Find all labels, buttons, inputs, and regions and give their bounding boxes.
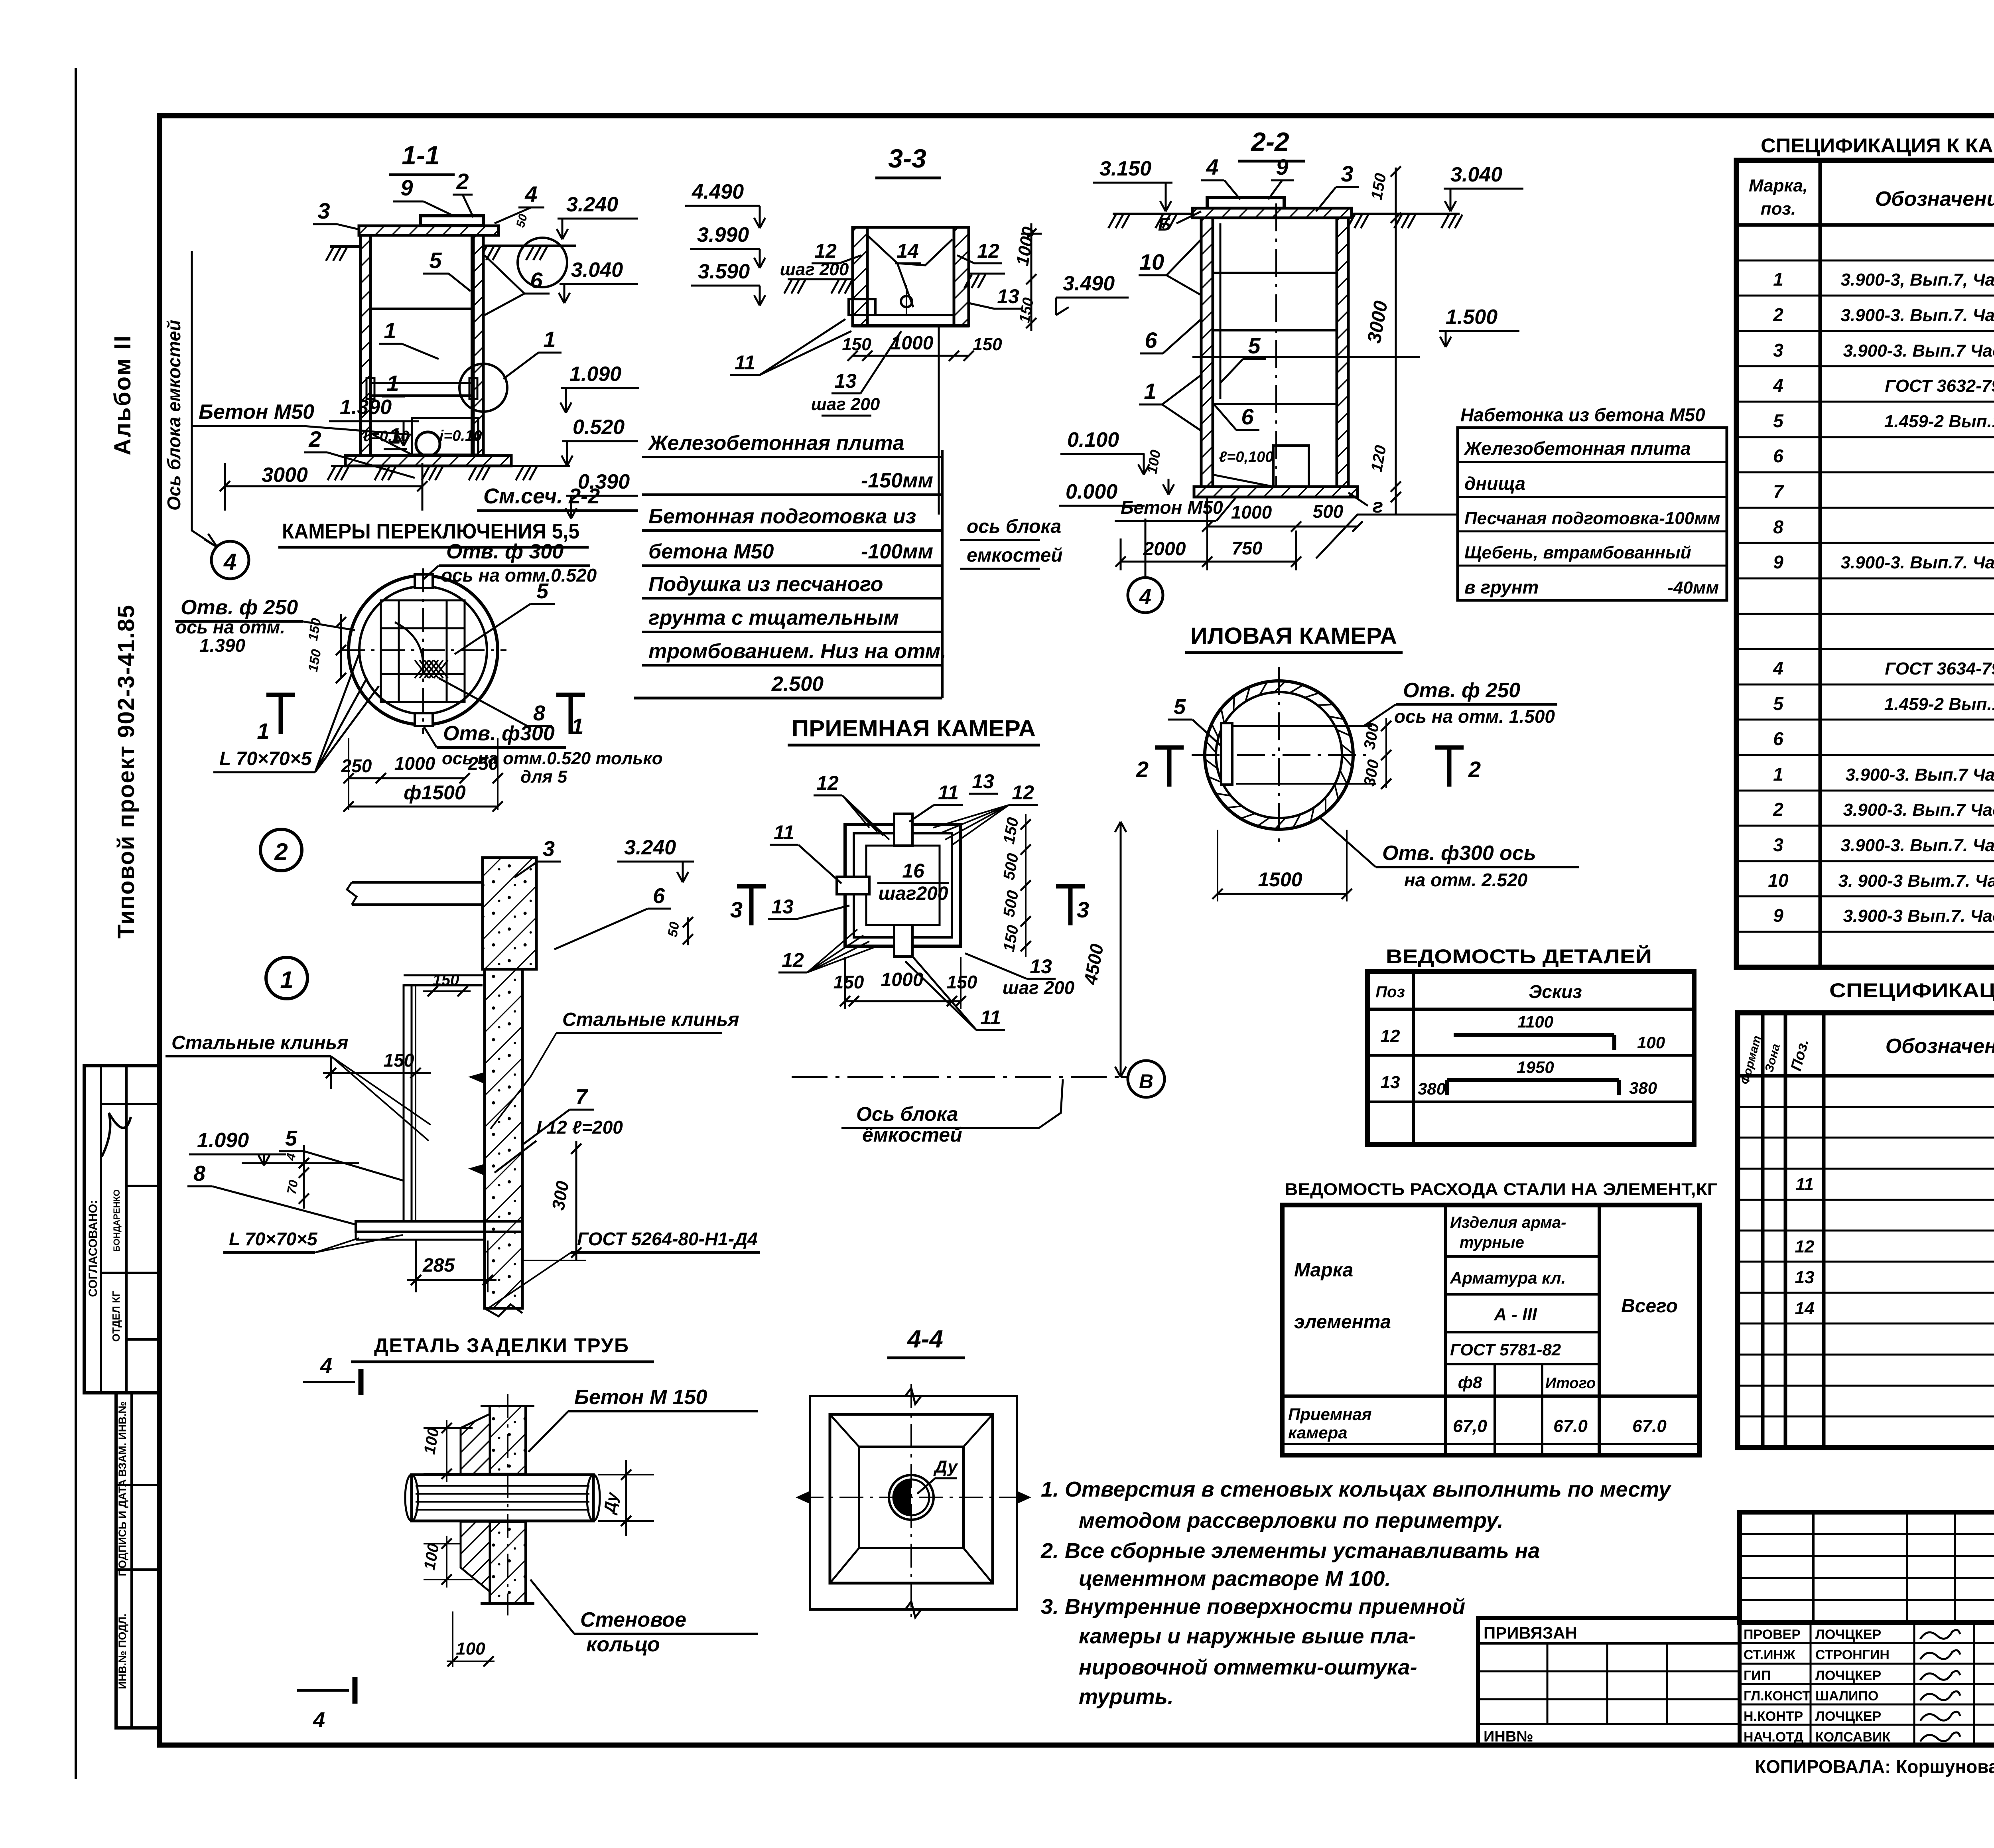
svg-text:3.490: 3.490 (1063, 272, 1115, 295)
svg-text:12: 12 (782, 949, 804, 971)
axis circle 4 sec22 (1128, 578, 1163, 613)
svg-text:3-3: 3-3 (888, 144, 926, 173)
svg-text:ЛОЧЦКЕР: ЛОЧЦКЕР (1815, 1668, 1881, 1683)
svg-text:4.490: 4.490 (692, 180, 744, 203)
svg-text:2: 2 (456, 169, 469, 194)
svg-text:500: 500 (1313, 501, 1344, 522)
section 3-3 ground hatch right (969, 273, 1005, 275)
svg-text:ШАЛИПО: ШАЛИПО (1815, 1688, 1878, 1704)
svg-text:8: 8 (533, 701, 545, 725)
svg-text:13: 13 (1795, 1268, 1815, 1287)
svg-text:3.900-3 Вып.7. Часть 1: 3.900-3 Вып.7. Часть 1 (1843, 906, 1994, 926)
detail 1 wall hatched (485, 969, 522, 1308)
svg-text:4: 4 (1206, 154, 1218, 179)
svg-text:L 70×70×5: L 70×70×5 (219, 748, 312, 769)
svg-text:Песчаная подготовка-100мм: Песчаная подготовка-100мм (1464, 509, 1720, 528)
svg-text:5: 5 (1174, 695, 1186, 719)
left stamp box soglasovano (84, 1066, 160, 1393)
svg-text:Типовой проект 902-3-41.85: Типовой проект 902-3-41.85 (113, 604, 139, 939)
section 1-1 ground line left (330, 245, 361, 248)
detail 1 inner angle vertical (404, 985, 412, 1221)
svg-text:6: 6 (1145, 327, 1157, 353)
svg-text:10: 10 (1768, 870, 1789, 891)
svg-text:3: 3 (1077, 897, 1089, 922)
svg-text:3.240: 3.240 (566, 193, 618, 216)
svg-text:1: 1 (280, 966, 293, 993)
svg-text:1: 1 (1773, 764, 1783, 785)
svg-text:9: 9 (1773, 905, 1783, 926)
svg-text:11: 11 (774, 821, 794, 844)
svg-text:1500: 1500 (1258, 868, 1302, 891)
svg-text:750: 750 (1232, 538, 1263, 558)
svg-text:3.240: 3.240 (624, 836, 676, 859)
svg-text:Арматура кл.: Арматура кл. (1450, 1268, 1566, 1287)
svg-text:3.900-3. Вып.7 Часть 1: 3.900-3. Вып.7 Часть 1 (1843, 800, 1994, 820)
svg-text:7: 7 (1773, 481, 1784, 502)
svg-text:ПРИЕМНАЯ КАМЕРА: ПРИЕМНАЯ КАМЕРА (792, 716, 1036, 742)
svg-text:СОГЛАСОВАНО:: СОГЛАСОВАНО: (87, 1200, 100, 1297)
zadelki wedge upper (461, 1414, 490, 1474)
svg-text:Бетонная подготовка из: Бетонная подготовка из (648, 505, 916, 528)
svg-text:2: 2 (1773, 304, 1783, 325)
svg-text:1: 1 (543, 327, 556, 352)
svg-text:7: 7 (575, 1085, 589, 1109)
section 2-2 lid (1207, 197, 1284, 208)
svg-text:6: 6 (1773, 728, 1783, 749)
svg-text:10: 10 (1139, 249, 1164, 274)
svg-text:13: 13 (834, 370, 857, 392)
detail 4-4 axes (910, 1384, 912, 1621)
detail 4-4 inner square (859, 1447, 964, 1548)
plan ilovaya axes (1278, 667, 1280, 846)
svg-text:Щебень, втрамбованный: Щебень, втрамбованный (1464, 543, 1691, 562)
svg-text:2: 2 (1773, 799, 1783, 820)
spec1 table grid (1736, 160, 1994, 967)
svg-text:6: 6 (1241, 404, 1254, 429)
svg-text:элемента: элемента (1294, 1312, 1391, 1333)
section 1-1 ground line right (483, 245, 576, 247)
svg-text:Отв. ф 300: Отв. ф 300 (446, 540, 564, 563)
svg-text:шаг 200: шаг 200 (1003, 977, 1075, 998)
svg-text:ВЕДОМОСТЬ РАСХОДА СТАЛИ НА ЭЛЕ: ВЕДОМОСТЬ РАСХОДА СТАЛИ НА ЭЛЕМЕНТ,КГ (1285, 1180, 1718, 1199)
title block TP revision grid (1812, 1512, 1815, 1623)
section 3-3 ground hatch left (788, 278, 853, 280)
svg-text:ГОСТ 3634-79: ГОСТ 3634-79 (1885, 659, 1994, 678)
svg-text:2: 2 (1136, 757, 1149, 782)
section 1-1 axis leader to circle 4 (192, 507, 217, 547)
svg-text:380: 380 (1629, 1079, 1657, 1097)
svg-text:ИНВ.№ ПОДЛ.: ИНВ.№ ПОДЛ. (116, 1613, 128, 1689)
svg-text:1000: 1000 (1231, 502, 1272, 523)
svg-text:67.0: 67.0 (1553, 1416, 1588, 1436)
svg-text:12: 12 (816, 772, 839, 794)
svg-text:3. 900-3 Выт.7. Часть 1: 3. 900-3 Выт.7. Часть 1 (1838, 871, 1994, 891)
section 3-3 box walls (853, 227, 867, 326)
section mark 1 left (266, 693, 295, 697)
svg-text:2-2: 2-2 (1250, 127, 1289, 156)
svg-text:9: 9 (1773, 552, 1783, 572)
svg-text:2: 2 (274, 838, 288, 865)
svg-text:СТРОНГИН: СТРОНГИН (1815, 1647, 1890, 1663)
svg-text:12: 12 (1795, 1237, 1815, 1256)
svg-text:11: 11 (1795, 1175, 1814, 1194)
svg-text:3.040: 3.040 (1450, 163, 1502, 186)
detail 2 floor slab (352, 881, 483, 884)
svg-text:Отв. ф 250: Отв. ф 250 (1403, 679, 1520, 702)
svg-text:1.459-2 Вып.1: 1.459-2 Вып.1 (1884, 694, 1994, 714)
svg-text:СПЕЦИФИКАЦИЯ К ПРИЕМНОЙ КАМЕ: СПЕЦИФИКАЦИЯ К ПРИЕМНОЙ КАМЕРЕ (1829, 979, 1994, 1002)
svg-text:8: 8 (193, 1162, 205, 1185)
left stamp box inv (116, 1393, 160, 1728)
svg-text:А - III: А - III (1494, 1305, 1537, 1324)
svg-text:0.520: 0.520 (573, 416, 625, 439)
svg-text:150: 150 (833, 972, 864, 992)
section 2-2 ladder line (1220, 223, 1222, 399)
detail circle 1 (266, 957, 307, 999)
plan priyemnaya outer square (845, 824, 961, 946)
svg-text:Альбом II: Альбом II (110, 334, 136, 455)
svg-text:6: 6 (530, 268, 543, 293)
spec2 table grid (1738, 1013, 1994, 1448)
svg-text:Н.КОНТР: Н.КОНТР (1744, 1709, 1803, 1724)
detail 2 concrete block (483, 858, 536, 969)
svg-text:1: 1 (1144, 379, 1156, 404)
svg-text:ПРИВЯЗАН: ПРИВЯЗАН (1484, 1623, 1577, 1642)
svg-text:1.090: 1.090 (197, 1129, 249, 1152)
svg-text:I 12 ℓ=200: I 12 ℓ=200 (536, 1117, 623, 1138)
svg-text:кольцо: кольцо (586, 1633, 660, 1656)
plan kamery outer ring (349, 576, 498, 725)
svg-text:1: 1 (257, 718, 269, 744)
svg-text:1100: 1100 (1517, 1012, 1553, 1031)
svg-text:3.590: 3.590 (698, 260, 750, 283)
svg-text:ℓ=0,100: ℓ=0,100 (1219, 449, 1274, 465)
svg-text:камеры и наружные выше пла-: камеры и наружные выше пла- (1079, 1624, 1416, 1648)
svg-text:100: 100 (1637, 1033, 1665, 1052)
svg-text:3000: 3000 (262, 463, 308, 487)
nabetonka leader (1316, 515, 1458, 558)
svg-text:5: 5 (1773, 693, 1784, 714)
note list right border (941, 450, 944, 698)
svg-text:ПОДПИСЬ И ДАТА: ПОДПИСЬ И ДАТА (116, 1479, 128, 1576)
svg-text:шаг200: шаг200 (878, 883, 948, 904)
svg-text:Стальные клинья: Стальные клинья (171, 1032, 348, 1053)
svg-text:БОНДАРЕНКО: БОНДАРЕНКО (112, 1189, 122, 1252)
section 1-1 bottom slab (345, 456, 511, 466)
plan ilovaya outer ring (1205, 681, 1353, 829)
svg-text:4: 4 (313, 1708, 325, 1732)
svg-text:100: 100 (456, 1639, 485, 1659)
svg-text:Изделия арма-: Изделия арма- (1450, 1214, 1566, 1231)
svg-text:КОЛСАВИК: КОЛСАВИК (1815, 1730, 1890, 1745)
plan kamery curved pipe line (395, 622, 423, 674)
svg-text:250: 250 (468, 753, 499, 774)
svg-text:11: 11 (735, 351, 755, 374)
svg-text:ф8: ф8 (1458, 1373, 1482, 1392)
svg-text:70: 70 (284, 1179, 301, 1195)
svg-text:1. Отверстия в стеновых кольца: 1. Отверстия в стеновых кольцах выполнит… (1041, 1477, 1672, 1501)
svg-text:ОТДЕЛ КГ: ОТДЕЛ КГ (110, 1291, 122, 1342)
svg-text:3: 3 (317, 198, 330, 223)
svg-text:ВЕДОМОСТЬ ДЕТАЛЕЙ: ВЕДОМОСТЬ ДЕТАЛЕЙ (1386, 945, 1652, 968)
svg-text:5: 5 (1248, 333, 1261, 358)
svg-text:3.900-3. Вып.7. Часть 1: 3.900-3. Вып.7. Часть 1 (1840, 836, 1994, 855)
axis circle 4 (211, 541, 249, 579)
svg-text:Ось блока: Ось блока (856, 1103, 958, 1125)
detail 1 wedges (471, 1073, 485, 1083)
svg-text:1950: 1950 (1517, 1058, 1554, 1077)
svg-text:камера: камера (1288, 1423, 1348, 1442)
detail 4-4 mid square (830, 1414, 993, 1583)
svg-text:Итого: Итого (1545, 1375, 1596, 1392)
svg-text:3. Внутренние поверхности прие: 3. Внутренние поверхности приемной (1041, 1595, 1465, 1619)
svg-text:3.900-3. Вып.7. Часть 1: 3.900-3. Вып.7. Часть 1 (1840, 553, 1994, 572)
svg-text:3: 3 (1341, 161, 1353, 186)
svg-text:6: 6 (653, 884, 665, 908)
detail 4-4 corner bevels (830, 1414, 859, 1447)
svg-text:КАМЕРЫ ПЕРЕКЛЮЧЕНИЯ 5,5: КАМЕРЫ ПЕРЕКЛЮЧЕНИЯ 5,5 (282, 519, 579, 543)
section 2-2 top slab (1192, 208, 1352, 218)
svg-text:9: 9 (400, 175, 413, 200)
svg-text:турные: турные (1460, 1234, 1524, 1251)
svg-text:ось на отм.: ось на отм. (175, 617, 285, 637)
svg-text:Ось блока емкостей: Ось блока емкостей (164, 320, 184, 511)
svg-text:4: 4 (1139, 585, 1151, 609)
svg-text:днища: днища (1464, 473, 1525, 494)
svg-text:1: 1 (386, 371, 399, 396)
svg-text:1.459-2 Вып.1: 1.459-2 Вып.1 (1884, 412, 1994, 431)
svg-text:12: 12 (1012, 781, 1034, 804)
left stamp signature (102, 1113, 131, 1157)
svg-text:ось на отм.0.520: ось на отм.0.520 (441, 565, 597, 586)
svg-text:ГОСТ 3632-79: ГОСТ 3632-79 (1885, 376, 1994, 396)
svg-text:Подушка из песчаного: Подушка из песчаного (648, 573, 883, 596)
title block privyazan box (1478, 1618, 1740, 1745)
svg-text:КОПИРОВАЛА: Коршунова: КОПИРОВАЛА: Коршунова (1755, 1756, 1994, 1777)
svg-text:1: 1 (384, 318, 396, 343)
svg-text:13: 13 (771, 895, 794, 918)
svg-text:ВЗАМ. ИНВ.№: ВЗАМ. ИНВ.№ (116, 1401, 128, 1477)
section mark 2 left ilovaya (1155, 746, 1184, 750)
plan ilovaya ladder stub (1221, 723, 1232, 785)
section mark 3 left (737, 884, 766, 889)
svg-text:13: 13 (997, 285, 1019, 308)
svg-text:грунта с тщательным: грунта с тщательным (648, 606, 899, 629)
section 2-2 ground left (1113, 213, 1192, 215)
svg-text:1-1: 1-1 (402, 140, 439, 170)
svg-text:шаг 200: шаг 200 (780, 260, 849, 279)
section 2-2 sump (1273, 446, 1309, 487)
svg-text:-40мм: -40мм (1667, 578, 1719, 598)
svg-text:бетона М50: бетона М50 (648, 540, 774, 563)
svg-text:285: 285 (422, 1255, 455, 1276)
svg-text:12: 12 (977, 240, 999, 262)
svg-text:2: 2 (1468, 757, 1481, 782)
detail 1 top plate (404, 984, 483, 986)
svg-text:Поз: Поз (1375, 983, 1405, 1001)
section 2-2 ring joints (1213, 272, 1337, 274)
section 1-1 top slab (359, 226, 498, 235)
svg-text:150: 150 (384, 1050, 414, 1071)
plan kamery inner ring (359, 586, 487, 714)
svg-text:Б: Б (1158, 214, 1171, 235)
svg-text:2.500: 2.500 (771, 673, 824, 696)
svg-text:3.900-3, Вып.7, Часть 1: 3.900-3, Вып.7, Часть 1 (1840, 270, 1994, 290)
svg-text:1: 1 (571, 714, 583, 739)
svg-text:Железобетонная плита: Железобетонная плита (1464, 438, 1691, 459)
svg-text:турить.: турить. (1079, 1685, 1174, 1709)
svg-text:4: 4 (223, 549, 236, 575)
section mark 4 top (303, 1381, 355, 1383)
vedomost detaley grid (1367, 972, 1694, 1144)
svg-text:8: 8 (1773, 517, 1783, 537)
section 1-1 detail circle lower (459, 364, 507, 412)
svg-text:Отв. ф300: Отв. ф300 (443, 722, 555, 745)
svg-text:3.900-3. Вып.7. Часть 1: 3.900-3. Вып.7. Часть 1 (1840, 306, 1994, 325)
svg-text:ось на отм. 1.500: ось на отм. 1.500 (1394, 706, 1555, 727)
svg-text:Марка,: Марка, (1749, 176, 1808, 195)
section 3-3 axis line down (938, 326, 940, 515)
plan priyemnaya stub top (894, 814, 912, 846)
section 3-3 left stub (849, 299, 875, 315)
svg-text:2000: 2000 (1143, 538, 1186, 560)
svg-text:ёмкостей: ёмкостей (862, 1124, 962, 1146)
svg-text:тромбованием. Низ на отм.: тромбованием. Низ на отм. (648, 640, 946, 663)
detail 1 wall break bottom (485, 1304, 522, 1316)
svg-text:ДЕТАЛЬ ЗАДЕЛКИ ТРУБ: ДЕТАЛЬ ЗАДЕЛКИ ТРУБ (374, 1334, 629, 1357)
zadelki wall upper (490, 1406, 526, 1474)
svg-text:нировочной отметки-оштука-: нировочной отметки-оштука- (1079, 1655, 1417, 1679)
svg-text:ЛОЧЦКЕР: ЛОЧЦКЕР (1815, 1627, 1881, 1642)
svg-text:емкостей: емкостей (967, 545, 1063, 566)
plan ilovaya ring hatch (1342, 755, 1352, 767)
section 1-1 sump (412, 418, 478, 455)
svg-text:4: 4 (320, 1354, 332, 1378)
svg-text:3: 3 (1773, 834, 1783, 855)
section mark 1 right (556, 693, 585, 697)
svg-text:Отв. ф300 ось: Отв. ф300 ось (1382, 842, 1536, 865)
detail 4-4 opening circle (889, 1475, 934, 1520)
section 2-2 ground right (1352, 213, 1460, 215)
plan ilovaya inner ring (1216, 692, 1342, 818)
detail 1 base plate (356, 1221, 522, 1232)
svg-text:Бетон М50: Бетон М50 (199, 400, 314, 424)
svg-text:67,0: 67,0 (1453, 1416, 1487, 1436)
svg-text:250: 250 (341, 755, 372, 776)
svg-text:См.сеч. 2-2: См.сеч. 2-2 (483, 484, 600, 508)
svg-text:шаг 200: шаг 200 (811, 394, 880, 414)
svg-text:ПРОВЕР: ПРОВЕР (1744, 1627, 1801, 1642)
svg-text:3.150: 3.150 (1099, 157, 1151, 180)
plan priyemnaya mid square (854, 833, 952, 937)
section 1-1 pipe level lines (370, 382, 473, 384)
section 1-1 sump pipe circle (416, 432, 440, 456)
svg-text:ИНВ№: ИНВ№ (1484, 1728, 1533, 1745)
svg-text:1000: 1000 (891, 333, 934, 354)
svg-text:6: 6 (1773, 446, 1783, 466)
svg-text:ось блока: ось блока (967, 516, 1061, 537)
svg-text:16: 16 (902, 860, 925, 882)
detail 4-4 outer square (810, 1396, 1017, 1609)
svg-text:Набетонка из бетона М50: Набетонка из бетона М50 (1460, 404, 1705, 425)
svg-text:13: 13 (1030, 955, 1052, 978)
section 1-1 right wall (473, 235, 483, 456)
plan kamery top stub (415, 574, 433, 588)
svg-text:цементном растворе М 100.: цементном растворе М 100. (1079, 1567, 1391, 1591)
svg-text:Всего: Всего (1621, 1296, 1678, 1317)
svg-text:3: 3 (543, 837, 555, 861)
svg-text:3.990: 3.990 (697, 223, 749, 247)
svg-text:5: 5 (429, 248, 442, 273)
axis line B (792, 1076, 1128, 1078)
svg-text:ГОСТ 5781-82: ГОСТ 5781-82 (1450, 1340, 1561, 1359)
section mark 2 right ilovaya (1435, 746, 1464, 750)
svg-text:Обозначение: Обозначение (1875, 187, 1994, 211)
plan kamery hatch blob (415, 660, 429, 678)
svg-text:13: 13 (972, 770, 994, 793)
svg-text:5: 5 (536, 579, 549, 603)
svg-text:11: 11 (980, 1006, 1001, 1029)
svg-text:Стеновое: Стеновое (580, 1608, 686, 1631)
svg-text:150: 150 (973, 335, 1002, 354)
svg-text:Приемная: Приемная (1288, 1405, 1371, 1424)
svg-text:1: 1 (1773, 269, 1783, 290)
svg-text:Обозначение: Обозначение (1886, 1035, 1994, 1058)
detail circle 2 (260, 829, 302, 871)
svg-text:поз.: поз. (1761, 199, 1796, 219)
svg-text:СТ.ИНЖ: СТ.ИНЖ (1744, 1647, 1795, 1663)
svg-text:1.500: 1.500 (1446, 306, 1497, 329)
section 3-3 trough lines (867, 235, 952, 265)
svg-text:4: 4 (1773, 375, 1783, 396)
svg-text:ф1500: ф1500 (404, 781, 466, 804)
svg-text:методом рассверловки по периме: методом рассверловки по периметру. (1079, 1509, 1503, 1532)
svg-text:50: 50 (665, 921, 682, 938)
section 2-2 left wall (1201, 218, 1213, 487)
svg-text:Эскиз: Эскиз (1529, 981, 1582, 1002)
title block staff grid (1740, 1623, 1994, 1745)
zadelki wall lower (490, 1522, 526, 1603)
svg-text:1.090: 1.090 (569, 363, 621, 386)
svg-text:2: 2 (308, 426, 321, 452)
svg-text:2. Все сборные элементы устана: 2. Все сборные элементы устанавливать на (1040, 1539, 1540, 1563)
svg-text:L 70×70×5: L 70×70×5 (229, 1229, 318, 1249)
section 2-2 right wall (1337, 218, 1348, 487)
svg-text:ГИП: ГИП (1744, 1668, 1771, 1683)
plan kamery bottom stub (415, 713, 433, 726)
svg-text:1000: 1000 (881, 969, 924, 990)
zadelki pipe (412, 1475, 593, 1521)
svg-text:1.390: 1.390 (340, 396, 392, 419)
svg-text:для 5: для 5 (520, 767, 567, 787)
svg-text:14: 14 (1795, 1299, 1815, 1318)
svg-text:1000: 1000 (394, 753, 435, 774)
section 2-2 center axis (1275, 203, 1277, 490)
svg-text:14: 14 (897, 240, 919, 262)
svg-text:Отв. ф 250: Отв. ф 250 (181, 596, 298, 619)
svg-text:ГЛ.КОНСТ: ГЛ.КОНСТ (1744, 1688, 1811, 1704)
svg-text:4: 4 (524, 181, 537, 207)
svg-text:150: 150 (947, 972, 977, 992)
plan priyemnaya stub bottom (894, 925, 912, 957)
plan kamery inner chamber (381, 600, 465, 702)
svg-text:-150мм: -150мм (861, 469, 933, 492)
svg-text:12: 12 (814, 240, 837, 262)
plan priyemnaya inner square (866, 846, 940, 925)
title block TP row (1740, 1512, 1994, 1623)
svg-text:3.040: 3.040 (571, 258, 623, 282)
svg-text:Марка: Марка (1294, 1260, 1353, 1281)
